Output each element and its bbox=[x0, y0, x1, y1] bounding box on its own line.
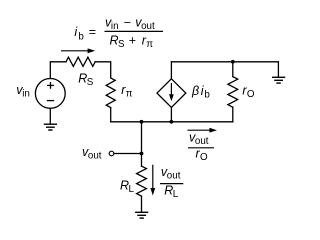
fraction v_out/R_L denominator bbox=[164, 184, 179, 201]
svg-text:=: = bbox=[89, 25, 96, 39]
svg-text:out: out bbox=[88, 150, 102, 161]
label beta*i_b (dependent source) bbox=[191, 84, 210, 101]
arrow: v_out/r_O current into rail bbox=[187, 128, 217, 133]
svg-text:−: − bbox=[124, 16, 131, 30]
wire: top rail corner down to right ground bbox=[277, 62, 279, 77]
voltage source V1 (v_in) circle bbox=[35, 79, 65, 109]
svg-text:out: out bbox=[195, 136, 209, 147]
ground (under R_L) bbox=[135, 212, 148, 218]
dependent current source U1 diamond bbox=[157, 79, 186, 108]
label v_in (source) bbox=[16, 83, 30, 100]
svg-text:in: in bbox=[111, 21, 119, 32]
arrow: inside dependent source pointing down bbox=[169, 83, 174, 101]
svg-text:β: β bbox=[191, 84, 199, 98]
fraction v_out/r_O numerator bbox=[189, 130, 209, 147]
svg-text:L: L bbox=[129, 184, 135, 195]
wire: top-right ground rail bbox=[171, 61, 278, 63]
label v_out (terminal) bbox=[82, 145, 102, 162]
ground (under v_in) bbox=[44, 124, 57, 130]
svg-text:in: in bbox=[22, 89, 30, 100]
wire: r_O bottom lead to output rail bbox=[232, 107, 234, 122]
wire: dependent source top lead up to top-right rail bbox=[170, 62, 172, 79]
fraction v_out/R_L bar bbox=[160, 183, 183, 185]
junction dot: output rail / R_L branch bbox=[140, 120, 144, 124]
minus sign inside source bbox=[47, 100, 54, 102]
equation denominator: R_S + r_pi bbox=[110, 33, 154, 50]
svg-text:out: out bbox=[167, 171, 181, 182]
equation numerator: v_in - v_out bbox=[105, 16, 155, 33]
junction dot: top rail / r_O bbox=[231, 60, 235, 64]
label R_L bbox=[120, 178, 135, 195]
svg-text:out: out bbox=[141, 21, 155, 32]
wire: output rail down to R_L bbox=[141, 122, 143, 166]
wire: v_in bottom lead to ground bbox=[49, 108, 51, 123]
node terminal: v_out open circle bbox=[109, 151, 114, 156]
svg-text:+: + bbox=[129, 33, 136, 47]
wire: dependent source bottom lead to output rail bbox=[170, 107, 172, 121]
svg-text:O: O bbox=[200, 152, 208, 163]
junction dot: output rail / dependent source bbox=[170, 120, 174, 124]
resistor r_O (vertical zigzag) bbox=[228, 77, 238, 108]
wire: r_O top lead from rail junction bbox=[232, 62, 234, 77]
ground (top right) bbox=[272, 77, 285, 83]
label i_b = (equation lhs) bbox=[74, 25, 96, 42]
wire: r_pi bottom lead down to output rail bbox=[110, 108, 112, 122]
wire: v_out terminal stub bbox=[114, 153, 141, 155]
svg-text:b: b bbox=[78, 32, 84, 43]
resistor R_S (horizontal zigzag) bbox=[66, 57, 95, 66]
svg-text:S: S bbox=[118, 39, 125, 50]
arrow: v_out/R_L current down beside R_L bbox=[150, 165, 155, 196]
fraction v_out/r_O denominator bbox=[196, 146, 209, 163]
plus sign inside source bbox=[47, 82, 54, 89]
label r_O bbox=[242, 84, 255, 101]
svg-text:b: b bbox=[204, 89, 210, 100]
resistor r_pi (vertical zigzag) bbox=[106, 78, 115, 108]
wire: v_in top lead up and right to R_S bbox=[50, 62, 66, 79]
wire: middle output rail (v_out node) bbox=[111, 121, 233, 123]
fraction v_out/r_O bar bbox=[188, 147, 214, 149]
svg-text:S: S bbox=[87, 77, 94, 88]
arrow: i_b current direction above R_S bbox=[61, 48, 95, 53]
junction dot: v_out stub bbox=[140, 152, 144, 156]
resistor R_L (vertical zigzag) bbox=[137, 166, 147, 196]
wire: R_S right lead to corner, down to r_pi bbox=[95, 62, 111, 78]
equation fraction bar bbox=[105, 30, 164, 32]
svg-text:π: π bbox=[126, 88, 133, 99]
wire: R_L bottom lead to ground bbox=[141, 196, 143, 212]
label r_pi bbox=[121, 83, 133, 100]
svg-text:π: π bbox=[146, 39, 153, 50]
svg-text:O: O bbox=[247, 89, 255, 100]
fraction v_out/R_L numerator bbox=[161, 165, 181, 182]
svg-text:L: L bbox=[173, 189, 179, 200]
label R_S bbox=[78, 71, 94, 88]
